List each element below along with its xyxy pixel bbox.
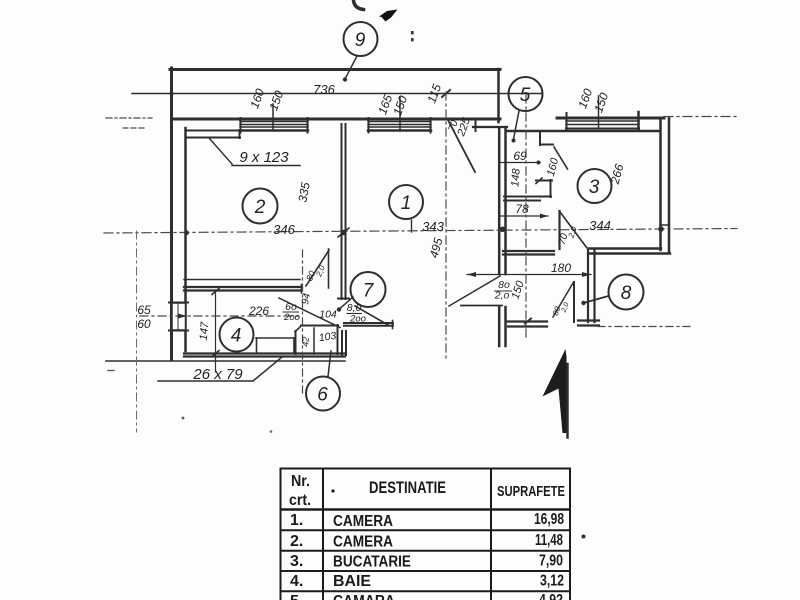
- svg-text:346: 346: [273, 222, 295, 237]
- corridor bottom wall segments: [507, 320, 547, 322]
- leader circle6: [328, 351, 331, 377]
- partition 5/3 upper: [539, 131, 541, 145]
- svg-text:16,98: 16,98: [534, 511, 564, 528]
- svg-text:9 x 123: 9 x 123: [239, 149, 289, 166]
- svg-text:8,0: 8,0: [347, 302, 362, 314]
- room3 bottom wall: [589, 247, 661, 249]
- dimension line 736: [132, 93, 542, 95]
- right bottom dashes: [598, 326, 690, 328]
- circle room 7: [351, 272, 386, 307]
- window W2 165/150: [368, 97, 431, 133]
- svg-text:4: 4: [231, 326, 242, 347]
- junction dots on axis: [184, 230, 189, 235]
- window 65/60 in left wall: [172, 303, 186, 330]
- dim 226 dashed: [140, 315, 301, 317]
- svg-text:60: 60: [137, 317, 151, 331]
- top page marks: [354, 1, 364, 10]
- door room2 lower swing: [306, 250, 329, 286]
- svg-text:147: 147: [198, 321, 212, 341]
- hall door 80/200 swing: [355, 306, 389, 326]
- svg-text:736: 736: [313, 82, 335, 97]
- svg-text:226: 226: [248, 304, 269, 318]
- svg-text:DESTINATIE: DESTINATIE: [369, 478, 446, 497]
- base reference line: [106, 360, 345, 362]
- wall between room2 and room1: [341, 124, 343, 299]
- partition jog: [536, 180, 552, 182]
- fraction labels: [283, 279, 510, 325]
- room8 corridor left wall: [587, 250, 589, 322]
- svg-text:103: 103: [318, 330, 337, 344]
- room1 bottom wall: [344, 322, 393, 324]
- window W3 160/150 top-right: [566, 96, 639, 130]
- wall between room1 and right rooms: [498, 129, 501, 274]
- svg-text:5: 5: [520, 85, 531, 106]
- svg-text:3: 3: [589, 177, 600, 198]
- svg-text:11,48: 11,48: [535, 532, 563, 549]
- svg-text:BUCATARIE: BUCATARIE: [333, 554, 411, 571]
- circle room 2: [243, 189, 278, 224]
- vertical axis x446: [445, 92, 447, 362]
- svg-text:3,12: 3,12: [540, 573, 564, 590]
- svg-text:2oo: 2oo: [283, 312, 300, 323]
- svg-text:1.: 1.: [290, 512, 303, 529]
- svg-text:4.: 4.: [290, 573, 303, 590]
- door swing 160: [554, 147, 568, 169]
- circle room 8: [609, 275, 644, 310]
- long diagonal near room4 door: [279, 298, 340, 328]
- svg-text:7: 7: [363, 281, 375, 302]
- svg-text:4,92: 4,92: [539, 592, 563, 600]
- table row lines: [280, 508, 571, 511]
- leader circle7: [340, 297, 353, 309]
- svg-text:2oo: 2oo: [349, 314, 366, 325]
- leader circle5: [514, 111, 520, 139]
- svg-text:CAMARA: CAMARA: [333, 593, 395, 600]
- right top axis: [664, 116, 737, 118]
- svg-text:2.: 2.: [290, 533, 303, 550]
- dashed reference lines: [104, 92, 737, 432]
- table column lines: [322, 468, 324, 600]
- door leaf+swing bottom of corridor: [573, 282, 575, 322]
- circle room 9: [344, 22, 378, 56]
- room number circles: [220, 22, 644, 411]
- vertical axis x526: [525, 95, 527, 338]
- vertical axis x302: [302, 250, 304, 396]
- wire top outline: [170, 68, 500, 71]
- table outer border: [280, 468, 282, 600]
- window W1 160/150 top-left: [240, 104, 308, 133]
- leader circle9: [346, 56, 358, 78]
- circle room 6: [306, 377, 340, 411]
- circle room 1: [389, 185, 423, 219]
- main horizontal axis: [104, 229, 737, 234]
- svg-text:148: 148: [509, 167, 523, 187]
- svg-text:6: 6: [317, 385, 328, 406]
- right outer wall double: [659, 118, 662, 250]
- top wall inner line: [174, 118, 500, 121]
- circle room 3: [578, 169, 612, 203]
- dim line 180: [467, 274, 591, 276]
- room5 bottom wall: [504, 196, 551, 198]
- handwritten dimension texts: [137, 82, 611, 383]
- wire left outer wall: [170, 68, 173, 359]
- circle room 4: [220, 318, 254, 352]
- svg-text:1: 1: [401, 193, 412, 214]
- svg-text:7,90: 7,90: [539, 553, 563, 570]
- circle room 5: [509, 77, 543, 111]
- room2 bottom wall: [184, 279, 300, 281]
- svg-text:69: 69: [513, 149, 527, 163]
- svg-text:BAIE: BAIE: [333, 573, 371, 590]
- wire right edge of top band: [497, 69, 500, 122]
- svg-text:104: 104: [319, 309, 337, 321]
- mid wall below room5: [503, 250, 554, 252]
- door swing 70/225 top of room 1: [448, 119, 476, 172]
- rotated handwritten texts: [198, 82, 627, 347]
- bathtub rect room4: [256, 337, 295, 339]
- leader circle8: [585, 296, 609, 303]
- svg-text:2: 2: [254, 197, 266, 218]
- svg-text:crt.: crt.: [289, 492, 311, 509]
- svg-text:78: 78: [515, 202, 529, 216]
- svg-text:CAMERA: CAMERA: [333, 513, 393, 530]
- beam 9x123: [187, 130, 240, 132]
- far left vertical: [136, 231, 138, 432]
- svg-text:180: 180: [551, 261, 571, 275]
- door from hall to corridor: [449, 276, 500, 306]
- svg-text:CAMERA: CAMERA: [333, 534, 393, 551]
- leader 26x79: [158, 380, 253, 382]
- svg-text:3.: 3.: [290, 553, 303, 570]
- svg-text:SUPRAFETE: SUPRAFETE: [497, 483, 565, 500]
- inner top line of right section: [506, 130, 660, 133]
- wall top right outer: [557, 117, 664, 120]
- wall stub right of door: [475, 119, 477, 131]
- svg-text:343: 343: [422, 219, 444, 234]
- svg-text:344: 344: [589, 218, 611, 233]
- svg-text:26 x 79: 26 x 79: [192, 366, 243, 383]
- svg-text:42: 42: [300, 336, 311, 347]
- TABLE: [280, 468, 571, 600]
- left inner wall: [184, 128, 187, 351]
- bottom wall left section: [184, 352, 345, 354]
- svg-text:65: 65: [137, 303, 151, 317]
- svg-text:5.: 5.: [290, 593, 303, 600]
- door leaf+swing into room3: [558, 211, 560, 249]
- top-left dashes: [106, 117, 152, 119]
- stem under circle1: [411, 220, 413, 232]
- dim line 147 vertical: [215, 291, 217, 372]
- dim 78: [499, 215, 548, 217]
- north arrow: [543, 349, 567, 433]
- dim 69: [499, 162, 540, 164]
- svg-text:8: 8: [621, 283, 632, 304]
- leader 9x123: [209, 138, 232, 164]
- closet 103 box: [301, 325, 338, 327]
- circle numbers: [231, 30, 632, 406]
- svg-text:Nr.: Nr.: [291, 473, 310, 490]
- svg-text:9: 9: [355, 30, 366, 51]
